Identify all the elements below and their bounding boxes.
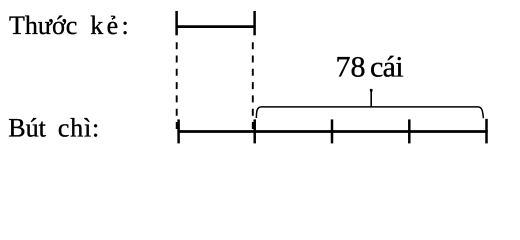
ruler bar right tick bbox=[253, 11, 256, 35]
svg-text:kẻ:: kẻ: bbox=[90, 11, 132, 40]
brace horizontal with curled ends bbox=[256, 107, 483, 118]
pencil bar tick 1 bbox=[177, 119, 180, 143]
right dashed projection line bbox=[252, 42, 254, 131]
pencil bar tick 5 bbox=[485, 119, 488, 144]
brace pointer flared tip bbox=[370, 89, 373, 92]
pencil bar tick 4 bbox=[408, 119, 411, 143]
ruler bar left tick bbox=[175, 11, 178, 35]
svg-text:Thước: Thước bbox=[9, 11, 77, 40]
pencil bar line bbox=[177, 130, 487, 133]
svg-text:78: 78 bbox=[336, 51, 366, 84]
pencil bar tick 2 bbox=[253, 119, 256, 143]
left dashed projection line bbox=[176, 42, 178, 131]
pencil bar tick 3 bbox=[331, 119, 334, 143]
brace middle pointer bbox=[370, 90, 372, 107]
ruler bar line bbox=[176, 25, 255, 28]
svg-text:Bút: Bút bbox=[8, 114, 46, 143]
svg-text:cái: cái bbox=[370, 51, 403, 84]
svg-text:chì:: chì: bbox=[58, 114, 100, 143]
